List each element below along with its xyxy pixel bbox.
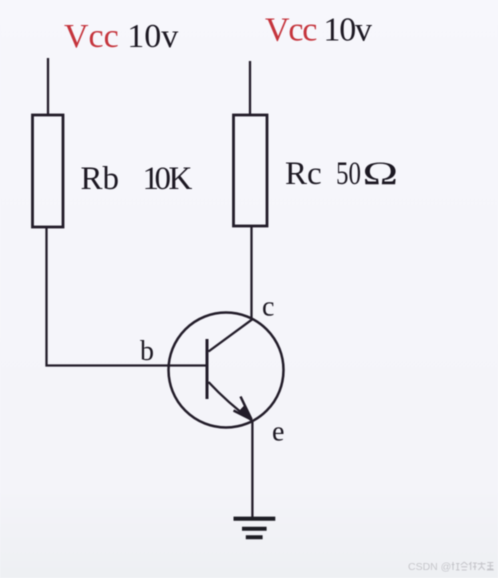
- svg-text:CSDN @: CSDN @: [408, 561, 451, 573]
- svg-text:Vcc 10v: Vcc 10v: [265, 12, 372, 49]
- svg-text:Ω: Ω: [363, 154, 399, 191]
- svg-text:K: K: [169, 161, 193, 197]
- svg-text:Vcc 10v: Vcc 10v: [64, 18, 178, 55]
- svg-text:Rb: Rb: [81, 161, 120, 197]
- svg-text:e: e: [272, 417, 284, 448]
- svg-text:Rc: Rc: [285, 156, 322, 192]
- svg-text:c: c: [262, 292, 274, 323]
- svg-text:50: 50: [336, 156, 361, 192]
- svg-text:b: b: [140, 336, 154, 367]
